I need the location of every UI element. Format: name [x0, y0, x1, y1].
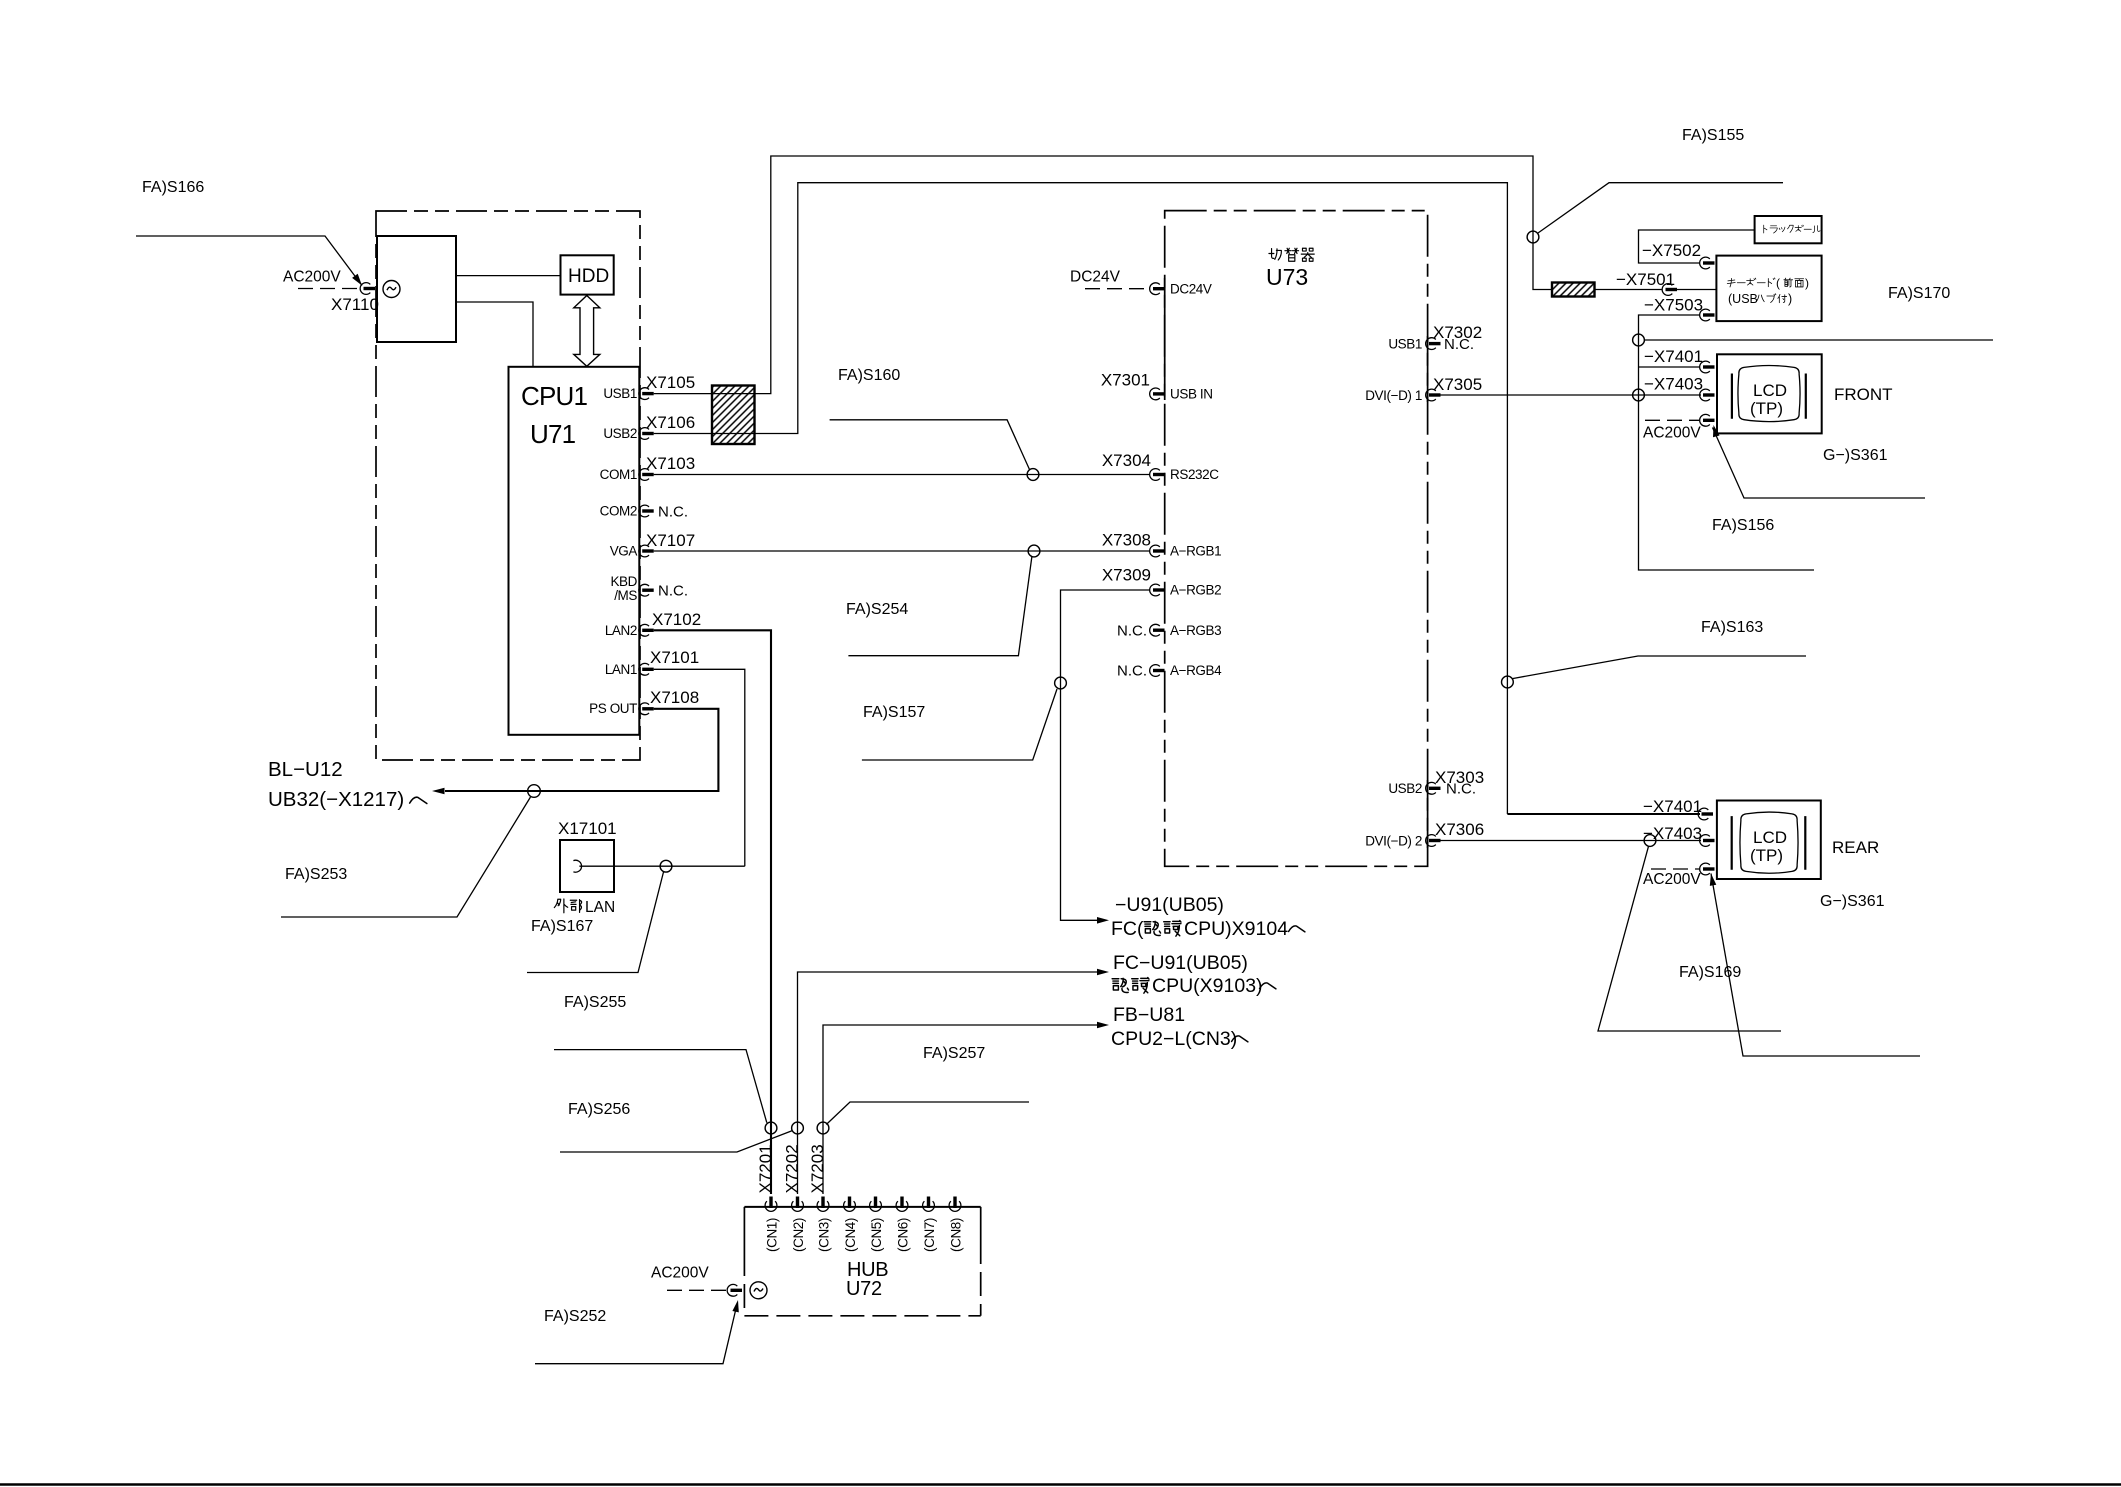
- svg-text:N.C.: N.C.: [1446, 781, 1476, 798]
- front LCD box: [1717, 354, 1822, 433]
- svg-text:FRONT: FRONT: [1834, 385, 1893, 404]
- svg-text:FA)S253: FA)S253: [285, 866, 347, 883]
- svg-text:(TP): (TP): [1750, 399, 1783, 418]
- svg-text:AC200V: AC200V: [1643, 425, 1701, 442]
- wire X7305 to front -X7403: [1441, 394, 1702, 396]
- connector -X7501: [1662, 284, 1677, 296]
- HUB pin CN6: [896, 1197, 908, 1212]
- svg-text:X7309: X7309: [1102, 566, 1151, 585]
- svg-text:A−RGB1: A−RGB1: [1170, 544, 1221, 559]
- dashed enclosure box (computer unit): [376, 211, 640, 760]
- wire trackball to keyboard -X7502: [1639, 230, 1755, 263]
- svg-text:(TP): (TP): [1750, 846, 1783, 865]
- svg-text:(CN6): (CN6): [896, 1218, 911, 1252]
- wire to FB-U81 annotation from HUB X7203: [823, 1025, 1103, 1194]
- svg-text:LAN: LAN: [585, 899, 615, 916]
- svg-text:AC200V: AC200V: [283, 269, 341, 286]
- wire X7306 to rear -X7403: [1441, 840, 1702, 842]
- svg-text:CPU2−L(CN3): CPU2−L(CN3): [1111, 1028, 1237, 1050]
- wire front -X7401: [1639, 366, 1700, 368]
- svg-text:FA)S255: FA)S255: [564, 994, 626, 1011]
- svg-text:N.C.: N.C.: [1117, 623, 1147, 640]
- svg-text:−X7401: −X7401: [1643, 797, 1702, 816]
- svg-text:(CN4): (CN4): [843, 1218, 858, 1252]
- wire LAN2 to HUB X7201: [654, 630, 771, 1194]
- svg-text:X7103: X7103: [646, 454, 695, 473]
- ferrite hatch box on USB wires: [712, 386, 755, 445]
- ferrite hatch box on keyboard wire: [1552, 283, 1595, 297]
- connector X7110: [360, 283, 375, 295]
- svg-text:AC200V: AC200V: [651, 1265, 709, 1282]
- junction circle on PS OUT wire: [528, 785, 541, 798]
- svg-text:UB32(−X1217): UB32(−X1217): [268, 788, 404, 811]
- wire X7105 USB1 to keyboard: [654, 156, 1717, 394]
- wire AC200V dashed: [298, 288, 361, 290]
- svg-text:DC24V: DC24V: [1070, 269, 1121, 286]
- svg-text:−X7503: −X7503: [1644, 296, 1703, 315]
- svg-text:X7306: X7306: [1435, 820, 1484, 839]
- svg-text:COM2: COM2: [600, 504, 637, 519]
- svg-text:A−RGB2: A−RGB2: [1170, 583, 1221, 598]
- switcher U73 dashed box: [1165, 211, 1428, 867]
- HUB box U72: [744, 1206, 980, 1208]
- svg-text:G−)S361: G−)S361: [1823, 447, 1888, 464]
- svg-text:FA)S155: FA)S155: [1682, 127, 1744, 144]
- svg-text:(CN2): (CN2): [791, 1218, 806, 1252]
- svg-text:FA)S160: FA)S160: [838, 367, 900, 384]
- svg-text:U71: U71: [530, 419, 576, 449]
- svg-text:X17101: X17101: [558, 819, 617, 838]
- HUB pin CN7: [923, 1197, 935, 1212]
- svg-text:FA)S257: FA)S257: [923, 1045, 985, 1062]
- svg-text:HDD: HDD: [568, 266, 609, 287]
- svg-text:−U91(UB05): −U91(UB05): [1115, 894, 1224, 916]
- junction circle on rear feed wire: [1502, 676, 1514, 688]
- label 外部LAN: [554, 899, 567, 913]
- wire PSU to CPU1: [456, 302, 533, 367]
- HUB pin CN4: [844, 1197, 856, 1212]
- wire A-RGB2 to U91 annotation: [1061, 590, 1151, 920]
- svg-text:KBD: KBD: [610, 574, 637, 589]
- HUB pin CN3: [817, 1197, 829, 1212]
- svg-text:LAN2: LAN2: [605, 623, 637, 638]
- svg-text:LCD: LCD: [1753, 381, 1787, 400]
- wire PSU to HDD: [456, 275, 561, 277]
- svg-text:LCD: LCD: [1753, 828, 1787, 847]
- connector -X7503 with wire down: [1700, 309, 1715, 321]
- svg-text:FC−U91(UB05): FC−U91(UB05): [1113, 952, 1248, 974]
- svg-text:X7105: X7105: [646, 373, 695, 392]
- svg-text:−X7403: −X7403: [1644, 375, 1703, 394]
- junction circle on VGA wire: [1028, 545, 1040, 557]
- svg-text:FA)S156: FA)S156: [1712, 517, 1774, 534]
- svg-text:USB2: USB2: [1388, 781, 1422, 796]
- HUB pin CN8: [949, 1197, 961, 1212]
- svg-text:DC24V: DC24V: [1170, 282, 1212, 297]
- junction circle on COM1 wire: [1027, 469, 1039, 481]
- svg-text:X7202: X7202: [783, 1144, 802, 1193]
- svg-text:USB1: USB1: [1388, 337, 1422, 352]
- svg-text:CPU1: CPU1: [521, 381, 587, 411]
- svg-text:X7308: X7308: [1102, 531, 1151, 550]
- svg-text:X7203: X7203: [808, 1144, 827, 1193]
- svg-text:(CN8): (CN8): [949, 1218, 964, 1252]
- wire to FC-U91 annotation from HUB X7202: [798, 972, 1104, 1194]
- svg-text:FA)S169: FA)S169: [1679, 964, 1741, 981]
- connector -X7502: [1700, 257, 1715, 269]
- svg-text:X7304: X7304: [1102, 451, 1151, 470]
- svg-text:N.C.: N.C.: [1117, 663, 1147, 680]
- svg-text:X7301: X7301: [1101, 371, 1150, 390]
- svg-text:(: (: [1776, 276, 1780, 290]
- wire LAN1 to external LAN: [614, 669, 745, 866]
- svg-text:−X7403: −X7403: [1643, 824, 1702, 843]
- wire PS OUT to BL-U12: [445, 709, 718, 791]
- svg-text:X7107: X7107: [646, 531, 695, 550]
- svg-text:A−RGB4: A−RGB4: [1170, 663, 1222, 678]
- double arrow HDD-CPU1: [574, 296, 600, 367]
- junction circle on A-RGB2 drop: [1055, 677, 1067, 689]
- svg-text:X7305: X7305: [1433, 375, 1482, 394]
- power supply box: [377, 236, 456, 342]
- HUB pin CN2: [792, 1197, 804, 1212]
- long wire right from junction: [1644, 339, 1993, 341]
- wire rear -X7401 thick: [1507, 813, 1700, 815]
- svg-text:AC200V: AC200V: [1643, 871, 1701, 888]
- svg-text:CPU(X9103): CPU(X9103): [1152, 975, 1263, 997]
- svg-text:FA)S256: FA)S256: [568, 1101, 630, 1118]
- svg-text:REAR: REAR: [1832, 838, 1879, 857]
- svg-text:FA)S254: FA)S254: [846, 601, 908, 618]
- svg-text:PS OUT: PS OUT: [589, 701, 637, 716]
- svg-text:(CN5): (CN5): [869, 1218, 884, 1252]
- svg-text:X7108: X7108: [650, 688, 699, 707]
- svg-text:FB−U81: FB−U81: [1113, 1004, 1185, 1026]
- HDD box: [561, 255, 614, 294]
- svg-text:−X7501: −X7501: [1616, 270, 1675, 289]
- label 切替器: [1269, 249, 1281, 260]
- svg-text:(USB: (USB: [1728, 292, 1758, 306]
- svg-text:X7201: X7201: [756, 1144, 775, 1193]
- svg-text:RS232C: RS232C: [1170, 467, 1219, 482]
- border bottom line: [0, 1483, 2121, 1486]
- leader FA)S166: [136, 236, 362, 286]
- svg-text:N.C.: N.C.: [1444, 336, 1474, 353]
- svg-text:FA)S157: FA)S157: [863, 704, 925, 721]
- wire X7106 USB2 to rear LCD: [654, 183, 1508, 814]
- wire COM1 to RS232C: [654, 474, 1150, 476]
- HUB pin CN1: [765, 1197, 777, 1212]
- svg-text:X7110: X7110: [331, 295, 379, 314]
- svg-text:U72: U72: [846, 1278, 882, 1300]
- svg-text:−X7502: −X7502: [1642, 241, 1701, 260]
- trackball box: [1755, 216, 1822, 243]
- svg-text:USB IN: USB IN: [1170, 387, 1213, 402]
- svg-text:USB1: USB1: [603, 386, 637, 401]
- svg-text:N.C.: N.C.: [658, 504, 688, 521]
- svg-text:(CN7): (CN7): [922, 1218, 937, 1252]
- svg-text:U73: U73: [1266, 264, 1308, 290]
- svg-text:G−)S361: G−)S361: [1820, 893, 1885, 910]
- wire VGA to A-RGB1: [654, 550, 1150, 552]
- AC source symbol: [383, 281, 400, 298]
- svg-text:FA)S252: FA)S252: [544, 1308, 606, 1325]
- connector rear AC200V: [1651, 868, 1699, 870]
- svg-text:VGA: VGA: [610, 544, 638, 559]
- svg-text:LAN1: LAN1: [605, 662, 637, 677]
- svg-text:(CN3): (CN3): [817, 1218, 832, 1252]
- svg-text:BL−U12: BL−U12: [268, 758, 343, 781]
- svg-text:USB2: USB2: [603, 426, 637, 441]
- junction circles on HUB drop wires: [765, 1122, 777, 1134]
- svg-text:): ): [1805, 276, 1809, 290]
- svg-text:DVI(−D) 1: DVI(−D) 1: [1365, 388, 1422, 403]
- HUB pin CN5: [870, 1197, 882, 1212]
- junction circle on keyboard USB wire: [1527, 231, 1539, 243]
- junction circle -X7503 branch: [1633, 334, 1645, 346]
- svg-text:A−RGB3: A−RGB3: [1170, 623, 1221, 638]
- junction circle on LAN1 wire: [660, 860, 672, 872]
- svg-text:): ): [1788, 292, 1792, 306]
- svg-text:/MS: /MS: [614, 588, 637, 603]
- svg-text:FC(: FC(: [1111, 918, 1144, 940]
- svg-text:FA)S163: FA)S163: [1701, 619, 1763, 636]
- svg-text:CPU)X9104: CPU)X9104: [1184, 918, 1288, 940]
- keyboard box: [1716, 256, 1821, 322]
- svg-text:X7101: X7101: [650, 648, 699, 667]
- connector front AC200V: [1645, 419, 1699, 421]
- svg-text:FA)S166: FA)S166: [142, 179, 204, 196]
- svg-text:FA)S170: FA)S170: [1888, 285, 1950, 302]
- svg-text:DVI(−D) 2: DVI(−D) 2: [1365, 834, 1422, 849]
- svg-text:−X7401: −X7401: [1644, 347, 1703, 366]
- svg-text:COM1: COM1: [600, 467, 637, 482]
- svg-text:FA)S167: FA)S167: [531, 918, 593, 935]
- rear LCD box: [1717, 801, 1821, 880]
- svg-text:X7102: X7102: [652, 610, 701, 629]
- svg-text:N.C.: N.C.: [658, 583, 688, 600]
- svg-text:(CN1): (CN1): [765, 1218, 780, 1252]
- CPU1 box U71: [509, 367, 640, 735]
- svg-text:X7106: X7106: [646, 413, 695, 432]
